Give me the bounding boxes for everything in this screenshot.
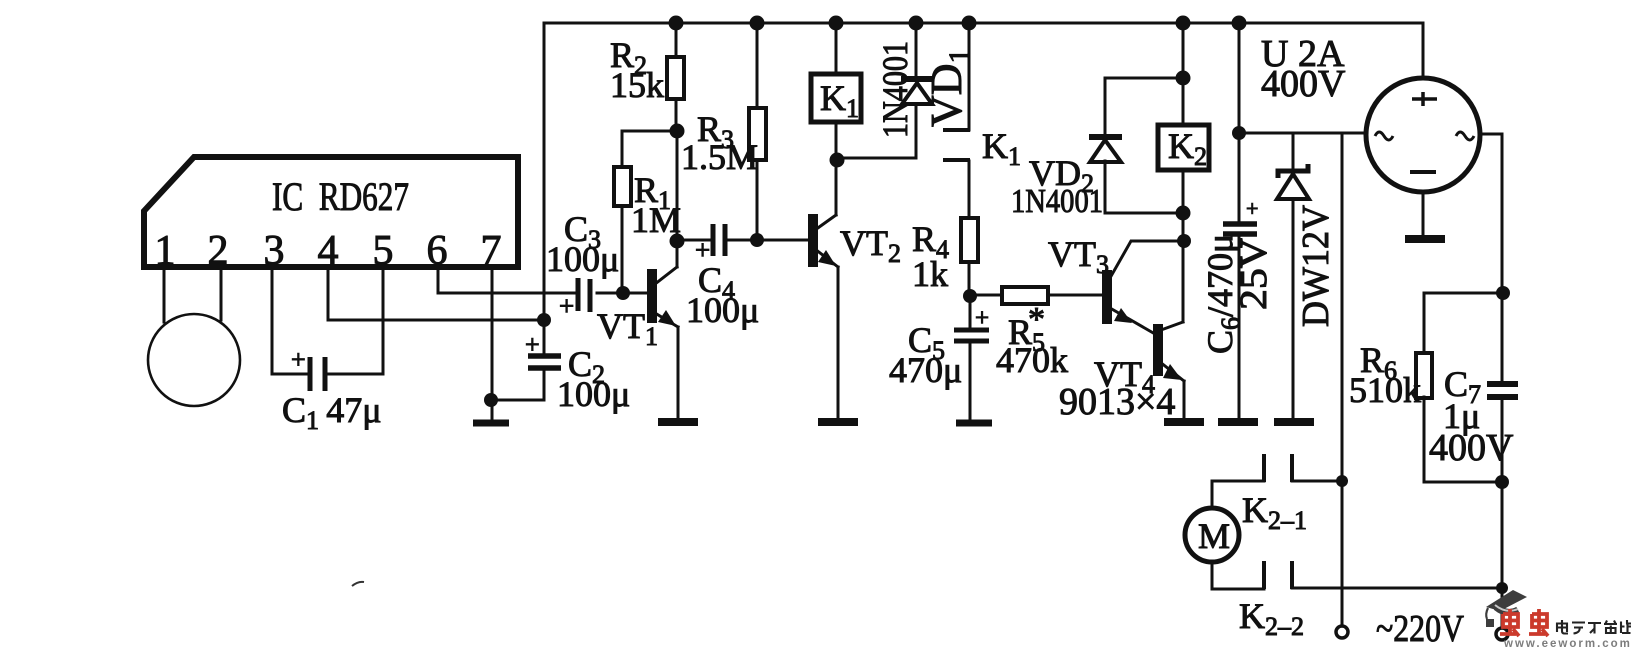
wire pin7 down <box>491 267 494 418</box>
node VT1 base <box>616 286 630 300</box>
ground pin7 <box>473 420 509 427</box>
svg-text:470μ: 470μ <box>889 350 962 390</box>
ground DW12V <box>1274 418 1314 426</box>
IC RD627 body <box>144 157 518 267</box>
wire mains left rail <box>1341 133 1344 625</box>
ground VT4 <box>1164 418 1204 426</box>
wire R6 top lead <box>1423 293 1426 353</box>
wire mains right rail <box>1501 482 1504 628</box>
node bus K1 contact <box>962 16 977 31</box>
svg-text:VT3: VT3 <box>1048 234 1109 279</box>
wire R6 C7 top link <box>1424 292 1502 295</box>
node VT3/VT4 collectors <box>1177 234 1191 248</box>
transistor VT3 emitter arrow <box>1114 308 1132 323</box>
relay coil K2 box <box>1158 125 1209 170</box>
svg-text:+: + <box>291 345 306 374</box>
wire C3 to VT1 base node <box>597 292 649 295</box>
svg-text:1: 1 <box>155 228 176 274</box>
K2-2 contact bars <box>1264 561 1292 589</box>
wire pin1 to microphone <box>163 267 166 322</box>
relay coil K1 box <box>811 74 861 122</box>
bridge ac mark left <box>1375 132 1393 140</box>
svg-text:+: + <box>559 291 574 321</box>
svg-text:K1: K1 <box>820 78 859 123</box>
svg-text:IC RD627: IC RD627 <box>272 174 409 219</box>
wire K2 top lead <box>1182 23 1185 125</box>
svg-text:K2: K2 <box>1168 126 1207 171</box>
svg-text:~220V: ~220V <box>1376 608 1464 649</box>
wire pin2 to microphone <box>220 267 223 320</box>
watermark red glyph chong 1 <box>1500 609 1519 636</box>
wire C7 bottom lead <box>1501 400 1504 482</box>
wire R2 bottom lead <box>675 99 678 131</box>
svg-text:100μ: 100μ <box>557 374 630 414</box>
capacitor C6 plates <box>1223 224 1257 234</box>
node bus C6 <box>1232 16 1247 31</box>
svg-text:1.5M: 1.5M <box>681 137 758 177</box>
resistor R3 body <box>749 108 766 160</box>
bridge ac mark right <box>1456 132 1474 140</box>
node VT1 collector / C4 <box>670 234 685 249</box>
wire K2 bottom lead <box>1182 170 1185 240</box>
wire R4 bottom lead <box>968 262 971 296</box>
transistor VT3 base bar <box>1104 272 1110 322</box>
wire R1 top lead <box>621 131 624 167</box>
wire K2-2 to right rail <box>1292 587 1502 590</box>
wire VD1 bottom lead <box>837 104 916 158</box>
node R2/R1 <box>670 124 685 139</box>
node bus R3 <box>750 16 765 31</box>
wire node B horizontal to bridge <box>1239 132 1366 135</box>
node K2 top / VD2 <box>1176 71 1191 86</box>
svg-text:K2–1: K2–1 <box>1242 490 1307 535</box>
svg-text:M: M <box>1198 516 1230 556</box>
resistor R6 body <box>1416 353 1432 398</box>
svg-text:100μ: 100μ <box>546 239 619 279</box>
wire R6 bottom lead <box>1424 397 1501 482</box>
svg-text:25V: 25V <box>1233 237 1275 310</box>
diode VD1 <box>901 76 933 82</box>
capacitor C4 plates <box>713 224 725 256</box>
wire motor top to K2-1 <box>1212 481 1264 508</box>
wire R1 bottom lead <box>621 206 624 293</box>
svg-text:9013×4: 9013×4 <box>1059 381 1175 423</box>
K2-1 contact bars <box>1264 454 1292 482</box>
svg-text:DW12V: DW12V <box>1295 204 1337 327</box>
node bus K1 coil <box>829 16 844 31</box>
wire R2/R1 link <box>622 130 677 133</box>
wire VT1 emitter to ground <box>655 313 678 418</box>
node bus R2 <box>669 16 684 31</box>
svg-text:15k: 15k <box>610 65 664 105</box>
terminal mains right <box>1496 628 1508 640</box>
wire VT3 emitter to VT4 base <box>1110 308 1155 334</box>
wire C2 bottom to ground node <box>491 370 544 400</box>
wire C6 top lead <box>1238 23 1241 221</box>
wire VT2 collector <box>815 160 836 230</box>
transistor VT4 base bar <box>1155 326 1161 374</box>
svg-text:1N4001: 1N4001 <box>1011 183 1103 220</box>
svg-text:1k: 1k <box>912 254 948 294</box>
wire R3 bottom lead <box>756 160 759 240</box>
wire C5 bottom to ground <box>969 343 972 418</box>
capacitor C2 plates <box>528 356 561 368</box>
wire R3 top lead <box>756 23 759 108</box>
svg-text:+: + <box>525 330 540 359</box>
wire C6 bottom to ground <box>1238 237 1241 418</box>
resistor R2 body <box>667 57 684 99</box>
bridge minus mark <box>1410 170 1436 174</box>
wire R2 top lead <box>675 23 678 57</box>
node C6 / bridge ac <box>1232 126 1246 140</box>
wire C1 to pin5 <box>328 267 383 374</box>
svg-text:+: + <box>975 305 989 332</box>
node K2 bottom / VD2 <box>1176 206 1191 221</box>
motor M circle <box>1185 508 1239 562</box>
transistor VT4 emitter arrow <box>1163 364 1182 380</box>
wire C4 right to VT2 base <box>728 239 810 242</box>
wire pin6 to C3 <box>438 267 575 293</box>
ground VT2 <box>818 418 858 426</box>
wire DW12V bottom to ground <box>1292 199 1295 418</box>
svg-text:400V: 400V <box>1429 427 1514 469</box>
wire bridge bottom to ground <box>1422 192 1425 234</box>
svg-text:4: 4 <box>318 228 339 274</box>
svg-text:*: * <box>1028 301 1045 338</box>
svg-text:K1: K1 <box>982 126 1021 171</box>
wire VT4 collector <box>1161 240 1183 330</box>
capacitor C7 plates <box>1487 384 1518 397</box>
capacitor C1 plates <box>310 357 325 391</box>
scan mark <box>352 582 364 586</box>
zener DW12V <box>1278 164 1308 178</box>
svg-text:1N4001: 1N4001 <box>875 41 915 138</box>
wire bridge right output <box>1480 134 1502 291</box>
K1 contact bars <box>943 130 970 160</box>
svg-text:C1 47μ: C1 47μ <box>282 390 382 435</box>
svg-text:+: + <box>695 235 710 265</box>
wire DW12V top lead <box>1292 133 1295 171</box>
svg-text:5: 5 <box>373 228 394 274</box>
wire VT1 collector <box>655 131 677 284</box>
wire VT3 collector <box>1110 241 1183 278</box>
watermark graduation cap <box>1486 590 1527 611</box>
node R4/R5/C5 <box>963 289 977 303</box>
microphone BM <box>148 314 240 406</box>
wire C4 left lead <box>677 239 710 242</box>
terminal mains left <box>1336 626 1348 638</box>
diode VD2 <box>1089 134 1122 140</box>
ground C5 <box>956 420 992 427</box>
wire K2-1 to left rail <box>1292 480 1342 483</box>
node bus K2 branch <box>1176 16 1191 31</box>
svg-text:7: 7 <box>481 228 502 274</box>
svg-text:510k: 510k <box>1349 370 1421 410</box>
svg-text:6: 6 <box>427 228 448 274</box>
node K2-2 / right rail <box>1496 582 1508 594</box>
node pin4/bus-drop <box>537 313 551 327</box>
wire C7 top lead <box>1501 293 1504 381</box>
transistor VT1 base bar <box>649 271 655 321</box>
wire pin3 to C1 <box>272 267 307 374</box>
node bus VD1 <box>909 16 924 31</box>
svg-text:VD1: VD1 <box>922 48 976 127</box>
capacitor C5 plates <box>954 330 989 341</box>
wire pin4 to bus drop <box>328 267 544 320</box>
node K2-1 / left rail <box>1336 475 1348 487</box>
wire R5 right lead to VT3 base <box>1048 294 1104 297</box>
wire top supply bus <box>545 23 1423 77</box>
node R6/C7 bottom <box>1495 475 1509 489</box>
resistor R4 body <box>961 218 978 262</box>
wire motor bottom to K2-2 <box>1212 562 1264 589</box>
ground C6 <box>1218 418 1258 426</box>
svg-text:VT2: VT2 <box>840 223 901 268</box>
wire VT4 emitter to ground <box>1160 362 1184 418</box>
wire VD1 top lead <box>915 23 918 78</box>
wire left bus drop to C2 <box>543 23 546 354</box>
svg-text:K2–2: K2–2 <box>1239 596 1304 641</box>
svg-text:www.eeworm.com: www.eeworm.com <box>1503 638 1632 649</box>
svg-text:2: 2 <box>208 228 229 274</box>
bridge plus mark <box>1412 92 1437 106</box>
ground VT1 <box>658 418 698 426</box>
transistor VT2 base bar <box>810 216 816 265</box>
watermark red glyph chong 2 <box>1529 609 1548 636</box>
wire K1 contact top lead <box>968 23 971 130</box>
node pin7 ground <box>484 393 498 407</box>
resistor R5 body <box>1002 287 1048 304</box>
svg-text:3: 3 <box>264 228 285 274</box>
wire VT2 emitter to ground <box>815 249 838 418</box>
wire VD2 bottom link <box>1105 161 1183 213</box>
capacitor C3 plates <box>578 278 590 312</box>
svg-text:100μ: 100μ <box>686 290 759 330</box>
svg-text:470k: 470k <box>996 340 1068 380</box>
node bridge output <box>1496 286 1510 300</box>
wire VD2 top link <box>1105 78 1183 135</box>
svg-text:400V: 400V <box>1261 63 1346 105</box>
wire C5 top lead <box>969 295 972 328</box>
resistor R1 body <box>614 167 631 206</box>
watermark black glyphs dianzi xiazaizhan <box>1557 620 1631 634</box>
transistor VT1 emitter arrow <box>658 310 676 326</box>
wire R5 left lead <box>969 294 1002 297</box>
svg-text:+: + <box>1246 196 1258 221</box>
transistor VT2 emitter arrow <box>818 250 836 266</box>
svg-text:1M: 1M <box>631 200 681 240</box>
ground bridge <box>1405 235 1445 243</box>
bridge rectifier U circle <box>1366 78 1480 192</box>
node K1 coil / VD1 / VT2 collector <box>830 153 845 168</box>
wire K1 coil bottom lead <box>835 122 838 160</box>
node C4/R3/VT2 base <box>750 233 764 247</box>
wire K1 contact to R4 <box>968 161 971 218</box>
wire K1 coil top lead <box>835 23 838 74</box>
